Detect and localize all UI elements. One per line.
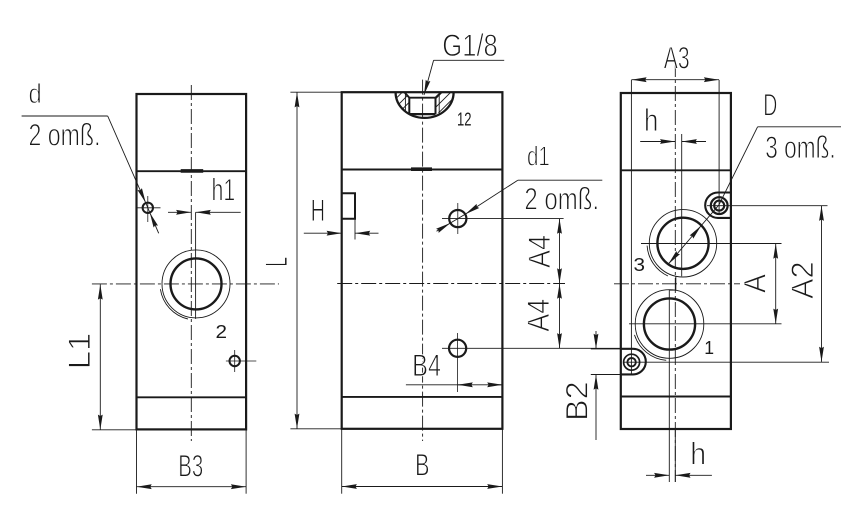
svg-text:3: 3 [634,255,646,275]
svg-text:H: H [311,192,325,228]
svg-text:2 omß.: 2 omß. [29,117,101,153]
svg-text:2: 2 [216,322,228,342]
svg-text:G1/8: G1/8 [442,27,498,63]
svg-text:D: D [763,87,777,123]
svg-text:1: 1 [704,338,714,358]
svg-text:A4: A4 [521,235,557,268]
svg-text:L1: L1 [61,333,97,370]
svg-text:B4: B4 [412,347,441,383]
svg-text:A3: A3 [664,40,690,76]
svg-text:d1: d1 [527,141,550,172]
svg-text:h1: h1 [212,172,236,208]
svg-text:B3: B3 [178,447,203,483]
svg-text:A: A [737,274,773,293]
svg-text:A2: A2 [784,262,820,300]
svg-text:12: 12 [457,110,472,130]
svg-text:B2: B2 [558,381,594,421]
svg-text:d: d [29,78,42,109]
svg-text:A4: A4 [520,299,556,332]
svg-text:B: B [415,446,430,482]
svg-text:L: L [258,257,294,267]
svg-text:2 omß.: 2 omß. [524,181,599,217]
svg-text:3 omß.: 3 omß. [765,129,835,165]
svg-text:h: h [690,436,706,472]
svg-text:h: h [644,102,658,138]
